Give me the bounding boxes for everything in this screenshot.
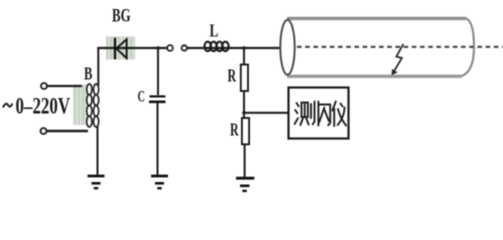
transformer primary winding (87, 84, 92, 127)
text 测闪仪 drawn as strokes (295, 102, 346, 127)
wire: AC bottom terminal to transformer (46, 130, 88, 133)
main wire from transformer through diode to first terminal (97, 47, 167, 49)
wire: down to R1 (243, 48, 245, 65)
label ~ 0-220V (3, 104, 12, 108)
capacitor C plates (150, 95, 166, 97)
svg-text:R: R (230, 120, 239, 140)
lightning break symbol (394, 44, 403, 71)
terminal circle bottom (41, 128, 47, 134)
wire: AC top terminal to transformer (46, 85, 82, 87)
wire: secondary bottom down to ground (97, 126, 99, 176)
wire: junction to meter box (244, 112, 289, 114)
meter box (flash tester) (289, 88, 349, 139)
diode BG shaded box (106, 37, 135, 60)
inductor L loops (205, 42, 229, 51)
node: junction to resistor chain (242, 46, 246, 50)
测 (297, 103, 299, 106)
open terminal circle right (182, 45, 187, 50)
resistor R1 (241, 65, 248, 92)
svg-text:C: C (138, 87, 145, 105)
闪 (317, 102, 319, 126)
dashed axis line (297, 46, 503, 48)
svg-text:BG: BG (112, 4, 131, 26)
svg-text:0–220V: 0–220V (16, 94, 71, 119)
open terminal circle left (167, 45, 173, 51)
svg-text:R: R (228, 66, 237, 86)
ground (capacitor) (151, 176, 168, 188)
wire: R1 to R2 (243, 91, 245, 119)
lamp cylinder top edge (287, 17, 466, 20)
diode D bar (114, 38, 116, 60)
ground (resistor chain) (236, 178, 254, 191)
transformer secondary winding (94, 84, 99, 127)
lamp cylinder bottom edge (287, 75, 461, 78)
label B (84, 65, 92, 85)
label L (210, 22, 219, 41)
node: junction to meter (242, 111, 246, 115)
wire: terminal to cylinder (through inductor) (187, 47, 281, 49)
wire: down to capacitor (157, 48, 159, 95)
terminal circle top (41, 83, 47, 89)
label BG (112, 4, 131, 26)
wire: capacitor to ground (157, 102, 159, 176)
label R2 (230, 120, 239, 140)
node: junction to capacitor (156, 46, 160, 50)
label C (138, 87, 145, 105)
diode triangle (116, 39, 126, 58)
svg-text:L: L (210, 22, 219, 41)
transformer B core panel (73, 85, 87, 126)
仪 (332, 102, 335, 111)
wire: secondary top up to diode level (97, 47, 99, 86)
svg-text:B: B (84, 65, 92, 85)
ground (transformer) (88, 176, 105, 188)
resistor R2 (242, 118, 249, 144)
wire: R2 to ground (244, 144, 246, 177)
lamp cylinder left ellipse (280, 20, 294, 75)
label R1 (228, 66, 237, 86)
lamp cylinder right cap (461, 18, 474, 76)
